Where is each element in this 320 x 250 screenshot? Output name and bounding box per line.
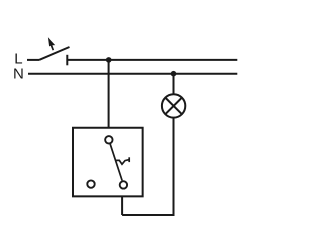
wire from lamp down xyxy=(173,118,175,215)
internal actuator squiggle xyxy=(116,160,129,165)
switch unit box xyxy=(73,128,143,197)
wire bottom horizontal xyxy=(122,214,174,216)
terminal bottom right (to lamp) xyxy=(120,181,127,188)
internal switch blade xyxy=(110,144,122,181)
terminal bottom left (unused) xyxy=(87,180,94,187)
wire from N node down to lamp xyxy=(173,74,175,95)
wire L left segment xyxy=(27,59,39,61)
node on L xyxy=(106,57,112,63)
wire N xyxy=(28,73,237,75)
node on N xyxy=(171,71,177,77)
switch fixed contact tick xyxy=(66,55,68,66)
wire stub up to switch box bottom xyxy=(121,196,123,215)
switch actuation arrow xyxy=(48,37,55,50)
lamp E1 xyxy=(162,94,185,117)
terminal top (L in) xyxy=(105,136,112,143)
wire L right segment xyxy=(67,59,237,61)
svg-text:N: N xyxy=(13,66,24,83)
wire from L node down to switch box xyxy=(108,60,110,127)
internal actuator end tick xyxy=(128,157,130,162)
switch blade (open) xyxy=(39,47,70,60)
